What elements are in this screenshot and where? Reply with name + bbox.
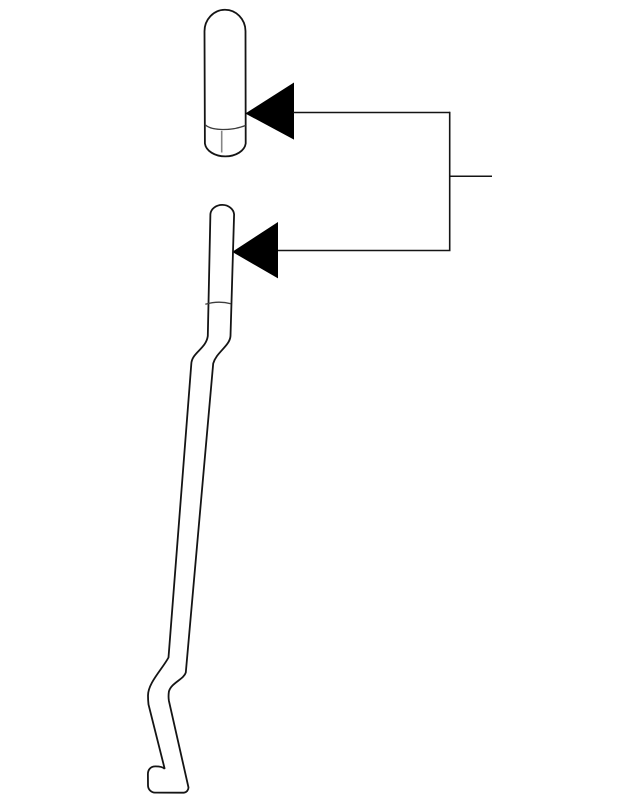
leader line 2 (bottom horizontal) <box>277 250 451 252</box>
knob inner vertical line <box>221 131 223 153</box>
rod seam line <box>205 302 231 304</box>
knob body (capsule cap, part 1) <box>204 10 245 157</box>
knob seam line <box>205 125 246 130</box>
rod body (bent support rod, part 2) <box>148 205 234 793</box>
stub line to right <box>451 175 493 177</box>
callout bracket right vertical <box>449 112 451 251</box>
arrow 2 (bottom callout arrowhead) <box>232 222 278 278</box>
leader line 1 (top horizontal) <box>293 112 450 114</box>
arrow 1 (top callout arrowhead) <box>245 83 294 140</box>
